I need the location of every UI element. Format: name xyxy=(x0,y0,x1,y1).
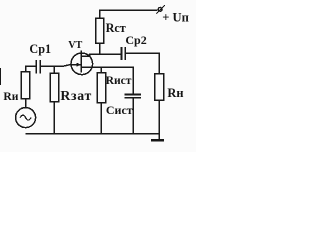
svg-text:Сист: Сист xyxy=(106,103,133,117)
wire top supply rail xyxy=(100,10,158,18)
terminal +Up xyxy=(156,5,165,14)
wire source node to Rист xyxy=(100,67,102,72)
capacitor Сист xyxy=(125,94,142,97)
scan artifact left edge xyxy=(0,68,1,85)
svg-text:Ср2: Ср2 xyxy=(125,33,146,47)
wire gate node xyxy=(40,65,81,67)
wire Rст bottom to drain node xyxy=(99,43,101,54)
svg-text:Rист: Rист xyxy=(106,74,132,87)
wire drain node xyxy=(90,54,122,56)
svg-text:VT: VT xyxy=(68,40,82,51)
resistor Rн xyxy=(155,74,164,101)
sine symbol xyxy=(20,115,31,120)
resistor Rст xyxy=(96,18,104,43)
wire bottom rail xyxy=(26,133,160,135)
svg-text:Ср1: Ср1 xyxy=(29,42,51,56)
wire output node to Rн xyxy=(125,53,159,73)
resistor Rзат xyxy=(50,73,58,101)
capacitor Cр1 xyxy=(36,60,40,74)
ground xyxy=(151,139,164,141)
svg-text:Rи: Rи xyxy=(3,90,18,103)
wire Rист bottom to rail xyxy=(100,103,102,134)
capacitor Cр2 xyxy=(121,47,125,60)
wire Rн bottom to ground xyxy=(158,100,160,139)
wire gate to Rзат xyxy=(53,66,55,73)
svg-text:Rн: Rн xyxy=(167,86,183,100)
source G1 (signal generator) xyxy=(16,108,36,128)
transistor VT (FET) xyxy=(71,51,93,75)
svg-text:Rзат: Rзат xyxy=(60,88,92,103)
wire generator top to Rи xyxy=(25,99,27,108)
resistor Rист xyxy=(97,73,106,103)
svg-text:Rст: Rст xyxy=(106,21,126,35)
wire Сист bottom to rail xyxy=(132,98,134,134)
wire source lead to Сист xyxy=(81,67,133,94)
resistor Rи xyxy=(21,72,29,99)
svg-text:+ Uп: + Uп xyxy=(162,10,189,24)
wire Rи top to input node xyxy=(26,66,37,72)
wire Rзат bottom to rail xyxy=(53,102,55,134)
